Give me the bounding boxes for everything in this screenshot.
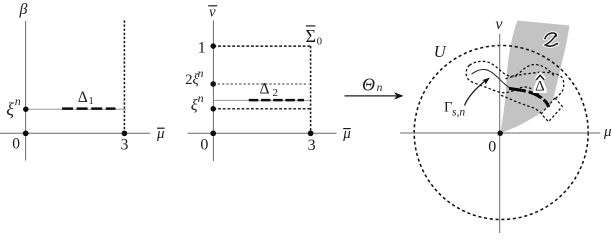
svg-text:Δ: Δ bbox=[78, 89, 88, 106]
label Delta_2 bbox=[260, 81, 279, 99]
node 3 left bbox=[122, 130, 128, 136]
svg-text:β: β bbox=[19, 1, 28, 18]
svg-text:μ: μ bbox=[603, 124, 612, 140]
node xi^n on beta axis bbox=[23, 106, 29, 112]
svg-text:Δ: Δ bbox=[535, 79, 545, 95]
axis label nu-bar bbox=[208, 4, 217, 20]
dashed circle U boundary bbox=[414, 46, 588, 220]
node 2xi^n on nu axis bbox=[210, 81, 216, 87]
svg-text:n: n bbox=[198, 91, 204, 105]
svg-text:s,n: s,n bbox=[452, 106, 465, 118]
svg-text:0: 0 bbox=[12, 136, 20, 153]
label Sigma-bar_0 bbox=[306, 26, 323, 48]
node origin right bbox=[497, 130, 503, 136]
vertical axis (nu-bar) bbox=[212, 20, 214, 161]
label xi^n middle bbox=[191, 91, 204, 114]
dotted tube around curve Gamma (lower boundary) bbox=[471, 82, 551, 106]
svg-text:3: 3 bbox=[121, 136, 129, 153]
dotted tube around curve Gamma (upper boundary and left cap) bbox=[466, 61, 554, 81]
label xi^n bbox=[6, 94, 21, 119]
label Theta_n bbox=[362, 74, 383, 94]
segment Delta-hat (thick dashed curve) bbox=[509, 88, 550, 109]
svg-text:ν: ν bbox=[495, 16, 503, 33]
arrow Theta_n bbox=[345, 92, 404, 99]
svg-text:1: 1 bbox=[89, 96, 94, 107]
axis label mu-bar middle bbox=[342, 126, 351, 142]
svg-text:2: 2 bbox=[273, 87, 279, 99]
gray region Z bbox=[500, 21, 569, 134]
dotted tube around Delta-hat (upper, with rounded right end) bbox=[506, 72, 564, 98]
segment Delta_2 (thick dashed) bbox=[249, 99, 304, 102]
svg-text:0: 0 bbox=[317, 37, 322, 48]
horizontal axis mu bbox=[400, 132, 600, 134]
svg-text:Θ: Θ bbox=[362, 74, 375, 94]
node origin middle bbox=[210, 130, 216, 136]
svg-text:n: n bbox=[377, 82, 383, 94]
horizontal axis (mu-bar) middle bbox=[188, 132, 337, 134]
svg-text:ξ: ξ bbox=[6, 99, 14, 119]
thin line at xi^n level middle bbox=[213, 99, 310, 101]
svg-text:ν: ν bbox=[209, 4, 216, 20]
svg-text:3: 3 bbox=[308, 137, 316, 154]
label Delta_1 bbox=[78, 89, 94, 107]
dotted line at xi^n level bbox=[213, 108, 310, 110]
svg-text:n: n bbox=[198, 66, 204, 80]
vertical axis nu bbox=[499, 34, 501, 233]
label script Z bbox=[545, 33, 558, 46]
thin line at xi^n level bbox=[26, 108, 127, 110]
label Gamma_s,n bbox=[444, 100, 465, 119]
fine dotted line at level 2xi^n bbox=[213, 83, 308, 85]
arrow from Gamma label to curve bbox=[465, 78, 491, 106]
node origin left bbox=[23, 130, 29, 136]
dotted vertical line at 3 middle bbox=[310, 46, 312, 133]
node 3 middle bbox=[308, 130, 314, 136]
horizontal axis (mu-bar) bbox=[0, 132, 150, 134]
svg-text:n: n bbox=[15, 94, 21, 108]
axis label mu-bar bbox=[156, 126, 165, 142]
svg-text:0: 0 bbox=[200, 137, 208, 154]
dotted line at level 1 bbox=[213, 45, 310, 47]
segment Delta_1 (thick dashed) bbox=[62, 107, 116, 110]
svg-text:Δ: Δ bbox=[260, 81, 270, 98]
svg-text:0: 0 bbox=[488, 138, 496, 155]
dotted tube around Delta-hat (lower) bbox=[501, 95, 541, 113]
vertical axis (beta) bbox=[25, 21, 27, 161]
dotted diamond section at end of Delta-hat bbox=[541, 98, 562, 122]
svg-text:Σ: Σ bbox=[306, 26, 316, 46]
label Delta-hat bbox=[535, 75, 545, 94]
svg-text:U: U bbox=[434, 42, 447, 61]
dotted vertical line at 3 bbox=[123, 20, 125, 133]
curve Gamma_s,n (thin solid) bbox=[472, 69, 511, 88]
node xi^n on nu axis bbox=[210, 106, 216, 112]
svg-text:1: 1 bbox=[198, 39, 206, 56]
node 1 on nu axis bbox=[210, 43, 216, 49]
label 2xi^n bbox=[185, 66, 203, 88]
